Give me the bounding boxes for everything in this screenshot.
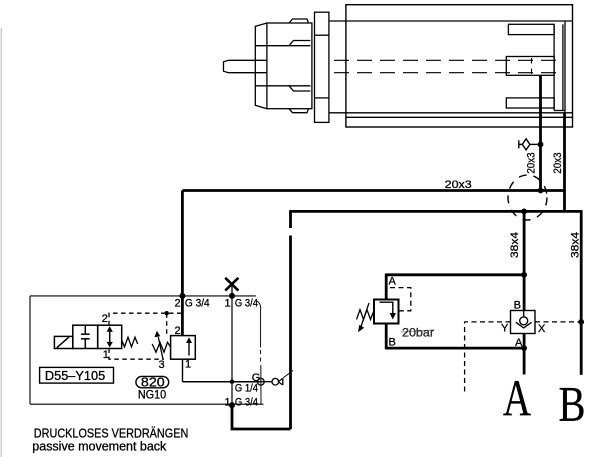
- junction dot bottom wire / A line: [521, 345, 527, 351]
- svg-text:1: 1: [185, 359, 191, 371]
- directional valve closed position box: [73, 325, 98, 348]
- rod end dashed marks: [531, 58, 533, 74]
- cylinder flange: [315, 12, 329, 122]
- junction dot rod-side pipe end: [538, 188, 544, 194]
- svg-text:20x3: 20x3: [526, 153, 538, 174]
- 820 stadium: [136, 376, 169, 387]
- svg-text:passive movement back: passive movement back: [32, 440, 167, 454]
- svg-text:G 1/4: G 1/4: [235, 383, 258, 395]
- relief valve adjust arrow: [358, 303, 369, 332]
- relief valve pilot dashed line: [390, 288, 411, 311]
- port 1 G3/4 top junction dot: [229, 293, 235, 299]
- wire: A line lower segment: [523, 334, 526, 375]
- piston rod: [224, 60, 267, 72]
- svg-text:X: X: [538, 323, 546, 335]
- cylinder internal bottom port boss: [506, 98, 554, 108]
- svg-text:G 3/4: G 3/4: [235, 298, 258, 310]
- relief valve lower stub: [385, 324, 388, 350]
- pilot check valve box: [171, 336, 196, 360]
- wire: heavy vertical return line x=290.5: [289, 210, 292, 429]
- svg-text:820: 820: [141, 375, 165, 390]
- svg-text:B: B: [514, 300, 521, 312]
- wire: A line 38x4 heavy vertical: [523, 211, 526, 310]
- svg-text:2: 2: [102, 313, 108, 325]
- relief valve top wire: [386, 273, 524, 276]
- pilot dashed lines: [109, 313, 182, 359]
- cylinder end cap inner line: [564, 21, 566, 113]
- wire: pilot valve to G1/4 line: [182, 359, 184, 382]
- wire: piston-side pipe from cylinder (heavy vertical): [563, 113, 566, 212]
- pilot operated check valve box: [511, 311, 536, 334]
- pilot junction dot: [165, 311, 169, 315]
- port 1 G3/4 bottom junction dot: [229, 402, 235, 408]
- wire: heavy vertical into pilot valve: [181, 296, 184, 336]
- wire: B line heavy vertical: [580, 210, 583, 375]
- svg-text:G 3/4: G 3/4: [185, 298, 210, 310]
- pilot check adjust arrow: [154, 331, 163, 360]
- relief valve V1 box: [374, 300, 399, 324]
- test coupling M1 on rod-side pipe: [519, 139, 541, 150]
- svg-text:1: 1: [225, 298, 231, 310]
- wire: horizontal main y=211.4 (heavy): [291, 210, 582, 213]
- wire: heavy bottom return from port 1: [232, 405, 291, 429]
- svg-text:G 3/4: G 3/4: [235, 397, 258, 409]
- wire: G1/4 horizontal: [183, 381, 261, 383]
- pilot check valve arrow: [186, 337, 192, 355]
- junction dot X pilot at B line: [578, 319, 584, 325]
- junction dot at test coupling: [538, 142, 544, 148]
- cylinder clevis block: [255, 19, 312, 113]
- directional valve flow position box: [98, 325, 122, 348]
- wire: rod-side pipe from cylinder (heavy vertical): [539, 75, 542, 190]
- plugged port X symbol: [225, 278, 238, 296]
- cylinder piston plate: [554, 24, 565, 110]
- svg-text:2: 2: [175, 325, 181, 337]
- relief valve spring: [357, 310, 375, 320]
- valve block boundary: [30, 296, 264, 404]
- label 20bar: [401, 330, 434, 332]
- svg-text:Y: Y: [501, 323, 509, 335]
- svg-text:38x4: 38x4: [570, 232, 582, 258]
- svg-text:20x3: 20x3: [552, 153, 564, 174]
- svg-text:2: 2: [175, 298, 181, 310]
- svg-text:A: A: [515, 337, 523, 349]
- solenoid of valve Y105: [54, 336, 72, 348]
- svg-text:1: 1: [103, 349, 109, 361]
- type designation box: [40, 367, 114, 383]
- svg-text:1: 1: [225, 397, 231, 409]
- check valve poppet: [516, 311, 532, 328]
- relief valve bottom wire: [386, 347, 524, 350]
- svg-text:D55–Y105: D55–Y105: [45, 369, 105, 383]
- port G circle junction: [257, 378, 264, 385]
- cylinder barrel outer shell: [329, 5, 573, 127]
- relief valve upper stub: [385, 274, 388, 300]
- wire: heavy vertical down to valve port 2: [181, 191, 184, 296]
- junction dot G1/4 x port line: [230, 380, 234, 384]
- junction dot A-branch: [521, 209, 527, 215]
- pencil corrected block right edge: [257, 301, 262, 404]
- pilot check spring: [152, 342, 170, 352]
- svg-text:DRUCKLOSES VERDRÄNGEN: DRUCKLOSES VERDRÄNGEN: [34, 426, 189, 440]
- test coupling G: [258, 371, 294, 386]
- junction dot top wire / A line: [521, 272, 527, 278]
- wire: 20x3 horizontal main (heavy): [182, 189, 564, 192]
- valve return spring: [122, 337, 138, 347]
- scan page edge artifact: [0, 28, 2, 457]
- svg-text:38x4: 38x4: [509, 232, 521, 258]
- svg-text:20bar: 20bar: [402, 326, 434, 340]
- port line vertical thin: [231, 296, 233, 405]
- svg-text:A: A: [503, 371, 531, 428]
- port 2 G3/4 junction dot: [179, 293, 185, 299]
- revision marker dashed ellipse: [508, 175, 547, 220]
- svg-text:20x3: 20x3: [445, 179, 472, 191]
- cylinder internal top port boss: [508, 24, 554, 34]
- svg-text:B: B: [559, 375, 586, 431]
- svg-text:A: A: [389, 276, 397, 288]
- pilot line Y dashed: [465, 322, 582, 392]
- svg-text:NG10: NG10: [138, 390, 166, 402]
- cylinder internal piston rod end boss: [506, 57, 554, 76]
- cylinder centerlines (dashed): [334, 60, 564, 72]
- svg-text:3: 3: [159, 359, 165, 371]
- relief valve internal arrow: [380, 302, 397, 319]
